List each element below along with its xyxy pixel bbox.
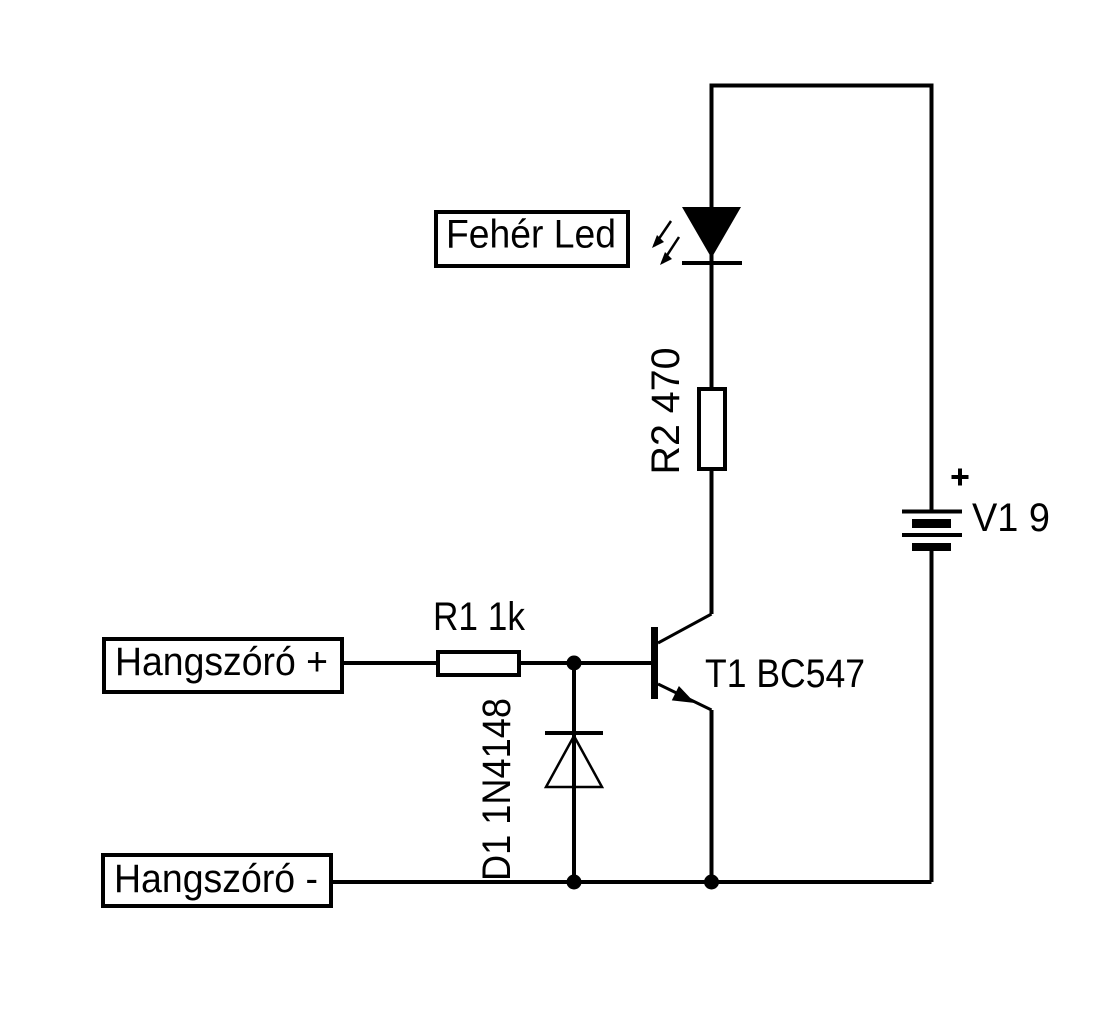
svg-text:R1 1k: R1 1k: [433, 595, 526, 639]
svg-text:Hangszóró +: Hangszóró +: [115, 640, 328, 684]
svg-text:R2 470: R2 470: [644, 348, 688, 475]
svg-text:Hangszóró -: Hangszóró -: [114, 857, 318, 901]
svg-text:D1 1N4148: D1 1N4148: [475, 698, 519, 881]
svg-text:V1 9: V1 9: [972, 496, 1050, 540]
svg-text:T1 BC547: T1 BC547: [705, 652, 865, 696]
svg-text:Fehér Led: Fehér Led: [446, 213, 616, 257]
